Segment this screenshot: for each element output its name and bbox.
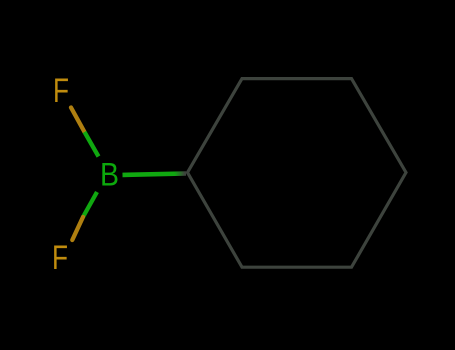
svg-text:F: F: [53, 72, 69, 110]
benzene/cyclohexane ring (carbon skeleton, very dark): [188, 79, 407, 268]
wire: bond F(top) to B, F half (goldenrod): [71, 108, 85, 133]
wire: bond F(top) to B, B half (green): [85, 132, 99, 157]
wire: bond B to F(bottom), B half (green): [83, 192, 97, 217]
svg-text:F: F: [52, 239, 68, 277]
wire: bond B to ring (fading green): [123, 174, 187, 175]
wire: bond B to F(bottom), F half (goldenrod): [72, 217, 83, 240]
svg-text:B: B: [100, 157, 119, 193]
